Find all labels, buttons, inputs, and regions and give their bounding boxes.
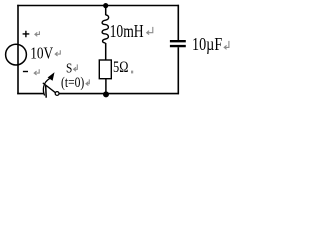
return mark after (t=0) [86,79,89,85]
wire resistor to bottom [105,79,107,94]
resistor R1 box [99,60,111,79]
return mark after 10mH [147,27,153,35]
inductor L1 coil [102,15,109,43]
wire left [17,5,19,94]
return mark after S [74,64,78,71]
svg-text:5Ω: 5Ω [113,59,128,76]
switch S contact circle [55,92,59,96]
wire bottom left segment [17,93,44,95]
tiny mark after 5ohm [131,71,133,74]
svg-text:10V: 10V [30,44,54,63]
svg-text:10mH: 10mH [110,21,144,41]
minus sign [23,71,28,73]
wire coil to resistor [105,43,107,60]
return mark after plus [35,31,40,36]
svg-text:(t=0): (t=0) [61,75,84,91]
return mark after 10uF [224,41,229,49]
svg-text:10µF: 10µF [192,34,222,54]
wire middle branch upper stub [105,6,107,16]
wire right lower [177,47,179,94]
wire right upper [177,5,179,40]
node B bottom junction dot [103,91,109,97]
switch S motion arc [43,79,49,96]
voltage source V1 circle [6,44,27,65]
switch S arrowhead [48,72,55,80]
wire bottom right segment [59,93,179,95]
switch S tick (left contact) [45,86,48,98]
return mark after minus [34,69,39,75]
plus sign [23,31,30,38]
return mark after 10V [55,50,60,56]
capacitor C1 bottom plate [170,45,186,47]
node A top junction dot [103,3,108,8]
capacitor C1 top plate [170,40,186,42]
switch S blade [43,83,56,93]
wire top [17,5,179,7]
